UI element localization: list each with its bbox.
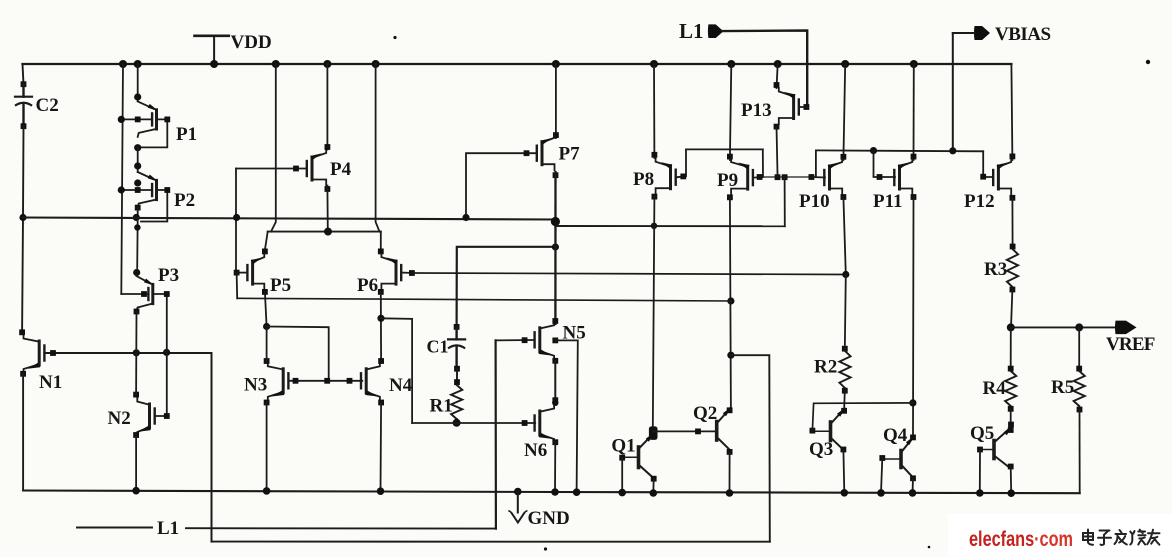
svg-text:P6: P6 xyxy=(357,275,378,296)
svg-text:L1: L1 xyxy=(157,518,179,539)
svg-text:P13: P13 xyxy=(741,100,772,121)
resistor R2 xyxy=(842,346,848,352)
wire VDD stub to P6 column xyxy=(376,64,380,232)
wire R2 bottom to Q3 collector xyxy=(843,391,846,411)
wire L1 riser to N5 gate xyxy=(495,340,497,528)
svg-text:P2: P2 xyxy=(174,190,195,211)
wire P13 drain to startup node xyxy=(777,127,778,174)
scan speck xyxy=(1146,60,1150,64)
wire startup node link toward P10 gate xyxy=(760,176,816,178)
resistor R3 xyxy=(1010,244,1016,250)
svg-text:N2: N2 xyxy=(108,408,131,429)
svg-text:Q4: Q4 xyxy=(883,425,908,446)
wire P11 drain down to Q4 collector xyxy=(912,197,915,437)
transistor Q3 xyxy=(829,422,833,441)
wire P2 drain to comp rail xyxy=(137,208,139,218)
resistor R1 xyxy=(456,369,458,382)
wire ground rail xyxy=(23,491,1080,494)
wire bottom feedback return line xyxy=(212,541,770,543)
svg-text:P8: P8 xyxy=(633,169,654,190)
wire left vertical VDD to C2 xyxy=(23,64,24,84)
svg-text:VBIAS: VBIAS xyxy=(995,24,1051,45)
wire P1 gate-drain loop xyxy=(140,119,167,147)
wire P7 drain node column xyxy=(553,172,559,178)
wire Q1 collector to Q2 base xyxy=(653,430,717,432)
transistor P7 xyxy=(555,64,557,138)
wire N5 gate lead from L1 riser xyxy=(496,339,534,341)
wire feedback line from comp gate loop to Q2 collector xyxy=(237,298,731,301)
transistor P9 xyxy=(730,64,731,160)
svg-text:R3: R3 xyxy=(984,259,1007,280)
wire N2 source to ground rail xyxy=(135,435,137,491)
wire Q5 base to ground rail xyxy=(979,450,981,494)
wire R5 bottom to ground rail corner xyxy=(1079,410,1081,494)
wire comp net rail (C2/N1/P2/P4/P5/P7 gates) xyxy=(23,218,555,220)
transistor N2 xyxy=(148,404,151,428)
wire L1 to P13 gate xyxy=(723,31,807,108)
transistor P3 xyxy=(136,218,139,269)
wire P4/P5 gate vertical to comp rail xyxy=(235,169,237,273)
wire bias gate bus (VBIAS) xyxy=(816,149,983,152)
wire P9 drain down to Q2 collector xyxy=(730,197,731,410)
wire P7 gate to comp rail xyxy=(466,153,537,217)
wire Q3 base riser to P11 drain line xyxy=(812,403,913,431)
svg-text:N3: N3 xyxy=(244,375,267,396)
transistor P6 xyxy=(380,232,382,248)
transistor Q2 xyxy=(715,422,719,441)
wire N1 source to ground rail xyxy=(22,374,24,491)
wire startup node to mirror line xyxy=(784,177,786,226)
node L1 bottom label xyxy=(77,527,152,529)
transistor P8 xyxy=(653,64,655,158)
wire N5 bulk tap to ground xyxy=(552,338,558,344)
wire N1 gate line to Q2 collector return xyxy=(44,352,211,354)
wire Q3 emitter to ground rail xyxy=(842,450,845,493)
resistor R5 xyxy=(1078,327,1080,370)
wire P5 gate loop to feedback line xyxy=(236,273,239,299)
wire diff pair tail bus xyxy=(268,231,381,233)
transistor P1 xyxy=(155,110,158,129)
svg-text:P11: P11 xyxy=(873,191,903,212)
transistor Q5 xyxy=(992,441,996,459)
capacitor C1 xyxy=(454,324,460,330)
svg-text:P3: P3 xyxy=(158,265,179,286)
svg-text:C2: C2 xyxy=(36,95,59,116)
wire N6 source to ground rail xyxy=(554,442,556,492)
wire P6 drain to N4 drain xyxy=(380,292,382,361)
svg-text:GND: GND xyxy=(528,508,570,529)
wire VDD stub to P5 column xyxy=(271,64,276,232)
scan speck xyxy=(393,36,396,39)
wire N4 drain branch to R1/N6 gate xyxy=(381,318,412,423)
transistor N5 xyxy=(538,328,541,352)
wire P12 drain to R3 xyxy=(1011,198,1013,246)
wire VDD top rail xyxy=(23,63,1012,65)
svg-text:P12: P12 xyxy=(964,191,995,212)
wire N3 source to ground rail xyxy=(266,403,268,491)
wire P3 gate-drain loop to N2 gate net xyxy=(155,294,167,352)
wire P6 gate sense line to R2/Q3 node xyxy=(412,273,846,275)
wire C1 branch from P7 drain node xyxy=(457,247,556,327)
svg-text:P4: P4 xyxy=(330,159,352,180)
transistor N4 xyxy=(365,369,368,393)
wire source column under VDD for P1 chain xyxy=(137,64,139,101)
transistor N6 xyxy=(538,411,541,435)
node VBIAS flag xyxy=(974,26,990,40)
wire P3 drain down to N1 gate line xyxy=(134,309,140,315)
svg-text:N4: N4 xyxy=(389,375,413,396)
svg-text:Q2: Q2 xyxy=(693,403,717,424)
transistor Q1 xyxy=(637,447,641,468)
svg-text:R2: R2 xyxy=(814,357,837,378)
wire P4 source from VDD xyxy=(326,64,328,150)
wire P1 drain to P2 source xyxy=(137,147,139,172)
wire Q4 base to ground rail xyxy=(881,458,882,493)
wire gate vertical for P1 P2 P3 xyxy=(121,64,123,294)
wire C2 bottom to comp net and N1 drain xyxy=(22,126,23,330)
wire P12 gate tap from bias bus xyxy=(983,151,993,177)
wire Q1 emitter to ground rail xyxy=(652,479,654,493)
wire P8/P9 gate bus xyxy=(686,148,763,150)
transistor P2 xyxy=(155,180,158,199)
svg-text:P5: P5 xyxy=(270,275,291,296)
svg-text:P7: P7 xyxy=(559,144,581,165)
svg-text:P9: P9 xyxy=(717,170,738,191)
transistor N3 xyxy=(282,369,285,393)
wire P11 gate tap from bias bus xyxy=(874,151,896,177)
svg-text:VDD: VDD xyxy=(231,32,272,53)
wire L1 bottom net to N5 gate riser xyxy=(186,527,496,529)
wire N5 source to N6 drain xyxy=(554,361,556,400)
wire Q1 base to ground rail xyxy=(621,458,623,493)
svg-text:R1: R1 xyxy=(430,396,453,417)
transistor P13 xyxy=(777,64,778,88)
watermark chinese characters xyxy=(1083,530,1160,545)
svg-text:P1: P1 xyxy=(176,124,197,145)
transistor P10 xyxy=(843,64,845,160)
scan speck xyxy=(544,547,547,550)
wire R4 bottom to Q5 collector xyxy=(1010,409,1012,430)
wire Q2 emitter to ground rail xyxy=(729,452,731,493)
svg-text:N1: N1 xyxy=(39,372,62,393)
wire Q4 emitter to ground rail xyxy=(912,478,915,493)
wire P2 gate-drain loop xyxy=(141,190,167,222)
svg-text:VREF: VREF xyxy=(1106,334,1155,355)
svg-text:P10: P10 xyxy=(799,191,830,212)
svg-text:R5: R5 xyxy=(1051,377,1074,398)
svg-text:Q5: Q5 xyxy=(970,423,994,444)
transistor P4 xyxy=(311,157,314,180)
transistor N1 xyxy=(38,341,41,365)
svg-text:Q3: Q3 xyxy=(809,439,833,460)
capacitor C2 xyxy=(21,81,27,87)
svg-text:elecfans·com: elecfans·com xyxy=(969,528,1073,551)
wire VBIAS down to bias bus xyxy=(953,32,975,34)
wire Q2 collector tap to output return xyxy=(731,355,770,542)
wire P8 gate up to mirror gate bus xyxy=(677,149,686,177)
scan speck xyxy=(928,546,931,549)
wire N2 drain up to P3 drain xyxy=(135,353,137,395)
wire P5 drain to N3 drain xyxy=(265,292,267,327)
transistor P5 xyxy=(265,232,268,248)
wire R1 bottom line to N6 gate xyxy=(412,422,535,424)
wire feedback vertical to bottom return line xyxy=(211,353,213,542)
wire N4 source to ground rail xyxy=(380,403,383,492)
wire Q5 emitter to ground rail xyxy=(1010,467,1013,494)
wire R3 to VREF node xyxy=(1011,290,1012,328)
wire N3/N4 gate bus with diode tie xyxy=(267,327,329,381)
wire P4 drain to tail bus xyxy=(325,186,331,192)
resistor R4 xyxy=(1010,327,1012,370)
wire P9 gate to bus corner xyxy=(754,149,764,177)
svg-text:L1: L1 xyxy=(679,19,704,43)
svg-text:N6: N6 xyxy=(524,440,547,461)
wire mirror line from P7 drain to P13 drain / P9 xyxy=(555,225,784,227)
transistor P11 xyxy=(913,64,915,160)
svg-text:Q1: Q1 xyxy=(611,436,635,457)
wire P10 drain to R2 node xyxy=(843,197,845,275)
transistor Q4 xyxy=(899,451,903,468)
svg-text:C1: C1 xyxy=(427,337,449,357)
svg-text:R4: R4 xyxy=(983,378,1007,399)
wire P8 drain down to Q1 collector xyxy=(653,197,655,429)
wire N2 gate jog xyxy=(155,352,167,416)
ground GND symbol xyxy=(517,492,519,513)
node VREF output xyxy=(1011,326,1116,328)
VDD power symbol xyxy=(195,34,229,37)
wire N3 drain to ground mirror diode tie xyxy=(266,327,268,364)
transistor P12 xyxy=(1011,64,1012,160)
